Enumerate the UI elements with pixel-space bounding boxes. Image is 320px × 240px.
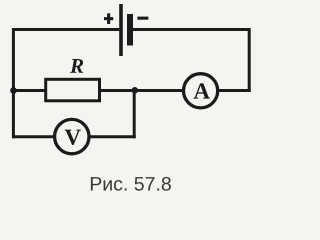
node junction right	[132, 87, 139, 94]
label plus	[104, 13, 113, 24]
resistor R	[46, 79, 100, 101]
wire ammeter-to-right segment	[218, 89, 251, 92]
wire top-left horizontal	[12, 28, 119, 31]
wire top-right horizontal	[133, 28, 249, 31]
wire voltmeter-right segment	[88, 135, 136, 138]
node junction left	[10, 87, 17, 94]
label R	[70, 59, 83, 73]
battery BAT1 long plate (+)	[119, 4, 123, 56]
battery BAT1 short plate (-)	[127, 14, 133, 46]
wire right vertical	[248, 28, 251, 92]
wire middle-left segment	[12, 89, 46, 92]
label minus	[137, 17, 148, 20]
wire voltmeter-left segment	[12, 135, 56, 138]
voltmeter V circle	[55, 119, 89, 153]
wire branch vertical	[133, 91, 136, 139]
caption Рис. 57.8	[91, 177, 171, 191]
wire left vertical	[12, 28, 15, 138]
ammeter A circle	[184, 74, 218, 108]
wire resistor-to-ammeter segment	[100, 89, 183, 92]
ammeter A letter	[194, 83, 210, 98]
voltmeter V letter	[65, 130, 81, 145]
